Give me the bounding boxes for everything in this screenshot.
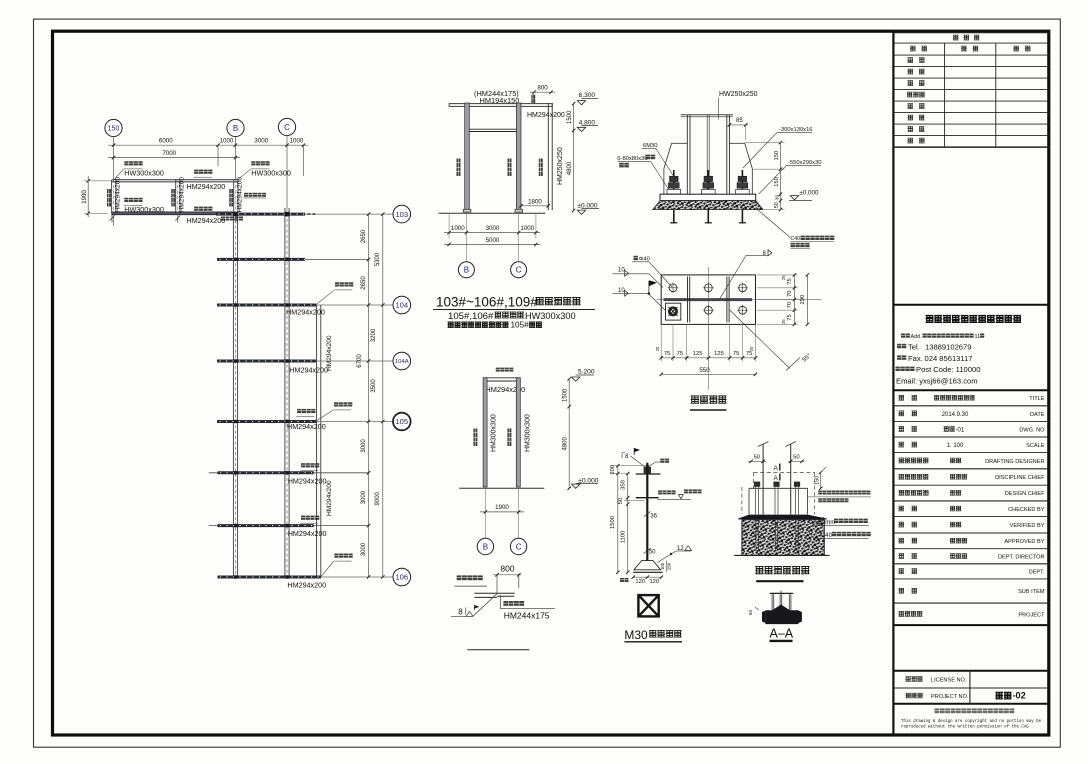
svg-text:11: 11 — [975, 334, 981, 340]
svg-text:Add.: Add. — [911, 334, 922, 340]
svg-text:±0.000: ±0.000 — [800, 190, 819, 197]
base plate plan web — [664, 298, 752, 301]
pier hatched — [742, 520, 824, 556]
svg-text:105#: 105# — [511, 320, 530, 329]
grid line C — [286, 136, 288, 208]
grid circle C elev2 — [510, 538, 526, 554]
svg-text:HW300x300: HW300x300 — [251, 168, 291, 177]
m30 left dims inner 350 50 1100 — [627, 474, 629, 573]
svg-text:HM294x200: HM294x200 — [115, 177, 122, 213]
svg-text:125: 125 — [693, 351, 703, 357]
svg-text:HM294x200: HM294x200 — [187, 182, 226, 191]
svg-text:HM294x200: HM294x200 — [527, 112, 565, 119]
svg-text:PROJECT: PROJECT — [1018, 612, 1045, 618]
svg-text:DATE: DATE — [1030, 412, 1045, 418]
svg-text:8: 8 — [458, 608, 463, 617]
svg-text:HM294x200: HM294x200 — [237, 177, 244, 213]
plan dim 550 — [661, 373, 755, 375]
elevation1 ground line — [439, 212, 546, 214]
base plate plan flange cuts — [687, 277, 689, 323]
svg-text:50: 50 — [748, 610, 753, 616]
svg-text:50: 50 — [774, 202, 780, 208]
svg-text:HM194x150: HM194x150 — [480, 96, 520, 105]
svg-text:HM294x200: HM294x200 — [178, 177, 185, 213]
svg-text:4800: 4800 — [563, 436, 569, 450]
column grid C (plan, vertical) — [284, 208, 286, 577]
svg-text:1000: 1000 — [520, 225, 534, 232]
column grid B (plan, vertical) — [232, 215, 234, 577]
label HM294x200 lower beam — [194, 207, 198, 211]
plan bottom dims 75 75 125 125 75 75 — [660, 324, 662, 361]
svg-text:TITLE: TITLE — [1029, 396, 1044, 402]
grid circle 104A — [393, 352, 411, 370]
gusset stiffener left — [663, 169, 665, 195]
anchor bolt with plate washer (bottom-left) — [666, 303, 681, 320]
dimension 7000 — [108, 157, 240, 159]
svg-text:70: 70 — [787, 291, 793, 297]
grid circle C — [278, 118, 295, 135]
encasement anchor bolts — [754, 482, 760, 487]
svg-text:2650: 2650 — [361, 276, 367, 290]
dimension chain rows outer — [382, 214, 384, 577]
grout layer under plate — [653, 201, 763, 210]
svg-text:550: 550 — [699, 367, 710, 374]
svg-text:1900: 1900 — [81, 190, 88, 204]
encasement column lines — [762, 444, 764, 514]
dimension chain rows inner — [368, 214, 370, 577]
svg-text:4800: 4800 — [567, 161, 573, 175]
svg-text:HM294x200: HM294x200 — [289, 365, 328, 374]
vertical HM294x200 label lines right — [316, 305, 318, 577]
svg-text:This drawing & design are copy: This drawing & design are copyright and … — [901, 719, 1042, 724]
svg-text:VERIFIED BY: VERIFIED BY — [1010, 523, 1045, 529]
label HW300x300 left — [124, 161, 128, 165]
svg-text:250: 250 — [667, 562, 672, 570]
m30 side dim 250 100 — [666, 560, 668, 572]
svg-text:1000: 1000 — [220, 138, 234, 145]
svg-text:C: C — [284, 123, 290, 132]
svg-text:HM294x200: HM294x200 — [187, 216, 226, 225]
svg-text:75: 75 — [787, 314, 793, 320]
grid circle B — [227, 119, 244, 136]
svg-text:103#~106#,109#: 103#~106#,109# — [436, 295, 538, 310]
title base plate — [691, 395, 699, 397]
plan dim 290 — [806, 275, 808, 325]
gusset stiffener right — [751, 169, 753, 195]
svg-text:Tel.: Tel. — [908, 342, 920, 351]
encasement title — [755, 566, 763, 568]
svg-text:36: 36 — [650, 514, 657, 520]
svg-text:85: 85 — [736, 118, 743, 124]
svg-text:024 85613117: 024 85613117 — [925, 354, 973, 363]
svg-text:75: 75 — [677, 351, 683, 357]
company address — [901, 334, 905, 338]
svg-text:2650: 2650 — [361, 229, 367, 243]
svg-text:DESIGN CHIEF: DESIGN CHIEF — [1005, 491, 1045, 497]
svg-text:75: 75 — [664, 351, 670, 357]
svg-text:A–A: A–A — [770, 627, 794, 641]
svg-text:100: 100 — [660, 562, 665, 570]
encasement note line1 — [818, 491, 822, 495]
svg-text:C: C — [516, 266, 522, 275]
svg-text:1: 100: 1: 100 — [947, 443, 964, 449]
grid line 150 — [113, 137, 115, 181]
svg-text:13889102679: 13889102679 — [925, 342, 971, 351]
bevel note 55deg — [730, 310, 790, 368]
elevation2 dim 1900 — [484, 488, 486, 538]
dimension row 6000 1000 3000 1000 — [108, 144, 308, 146]
pier anchor rods — [755, 520, 757, 551]
svg-text:6700: 6700 — [357, 354, 363, 368]
base plate plan centerlines — [707, 267, 709, 390]
svg-text:C40: C40 — [791, 236, 801, 242]
svg-text:B: B — [483, 542, 488, 551]
svg-text:9000: 9000 — [375, 491, 381, 505]
svg-text:103: 103 — [395, 210, 408, 219]
company postcode — [896, 367, 900, 371]
svg-text:HW300x300: HW300x300 — [124, 205, 164, 214]
svg-text:25: 25 — [781, 319, 786, 324]
svg-text:6.300: 6.300 — [579, 92, 596, 99]
elevation1 bottom dims — [448, 213, 450, 238]
info rows — [893, 389, 1049, 391]
label HM294x200 upper beam — [194, 170, 198, 174]
svg-text:HM244x175: HM244x175 — [504, 611, 550, 621]
svg-text:150: 150 — [108, 126, 120, 133]
svg-text:50: 50 — [754, 455, 760, 461]
svg-text:10: 10 — [618, 268, 625, 274]
grid circle 105 — [393, 413, 411, 431]
svg-text:DRAFTING DESIGNER: DRAFTING DESIGNER — [985, 459, 1044, 465]
spare underline — [467, 649, 529, 651]
bolt holes — [669, 284, 677, 292]
m30 bolt rod — [646, 463, 648, 561]
svg-text:150: 150 — [774, 177, 780, 187]
pier ground line — [734, 554, 829, 556]
base plate plan rect — [661, 275, 755, 325]
section A-A bolts — [771, 594, 773, 610]
svg-text:HW300x300: HW300x300 — [124, 168, 164, 177]
beam HW300x300 top chord — [112, 179, 237, 181]
svg-text:1800: 1800 — [528, 199, 542, 206]
elevation2 right column HM300x300 — [516, 378, 520, 487]
m30 nut — [644, 467, 651, 474]
svg-text:5.200: 5.200 — [578, 369, 595, 376]
encasement dashed outline — [754, 471, 815, 473]
beam row +3000b — [209, 525, 369, 527]
beam row 104A — [316, 360, 393, 362]
svg-text:75: 75 — [787, 278, 793, 284]
svg-text:75: 75 — [733, 351, 739, 357]
signature table — [893, 32, 1049, 34]
svg-text:200: 200 — [610, 465, 616, 475]
plan right dims 75 70 70 75 — [757, 274, 798, 276]
break symbol — [758, 442, 769, 447]
beam row 103 — [305, 213, 393, 215]
m30 top washer plate — [636, 473, 661, 475]
svg-text:-02: -02 — [1013, 691, 1026, 701]
splice existing beam lines — [474, 592, 514, 594]
svg-text:2014.9.30: 2014.9.30 — [942, 412, 969, 418]
svg-text:104: 104 — [395, 301, 408, 310]
plan column mid — [175, 180, 177, 215]
label hole dia 40 — [634, 256, 638, 260]
svg-text:HM294x200: HM294x200 — [287, 422, 326, 431]
beam row +3000a — [209, 472, 369, 474]
svg-text:B: B — [233, 124, 238, 133]
svg-text:800: 800 — [500, 564, 514, 574]
svg-text:105: 105 — [395, 417, 408, 426]
grid circle 104 — [393, 296, 411, 314]
grid circle 103 — [393, 205, 411, 223]
svg-text:3000: 3000 — [361, 542, 367, 556]
license row — [969, 671, 971, 704]
label HW300x300 lower-left — [124, 198, 128, 202]
dimension 1900 — [87, 176, 89, 217]
svg-text:SCALE: SCALE — [1026, 443, 1045, 449]
svg-text:DWG. NO: DWG. NO — [1019, 427, 1045, 433]
weld flag — [648, 281, 650, 293]
svg-text:1000: 1000 — [290, 138, 304, 145]
svg-text:1500: 1500 — [563, 388, 569, 402]
beam row 104 — [316, 304, 393, 306]
svg-text:3500: 3500 — [371, 379, 377, 393]
svg-text:5000: 5000 — [486, 237, 500, 244]
svg-text:800: 800 — [537, 85, 548, 92]
blank project box — [893, 624, 1049, 626]
svg-text:50mm: 50mm — [818, 519, 835, 526]
svg-text:25: 25 — [781, 275, 786, 280]
beam HM294x200 lower chord — [112, 212, 236, 215]
project no row — [893, 703, 1049, 705]
svg-text:Fax.: Fax. — [908, 354, 923, 363]
svg-text:LICENSE NO.: LICENSE NO. — [931, 678, 967, 684]
grid circle C elev1 — [511, 262, 527, 278]
svg-text:-01: -01 — [956, 427, 965, 433]
svg-text:3200: 3200 — [371, 328, 377, 342]
svg-text:8: 8 — [625, 453, 629, 460]
label HW300x300 right (grid B) — [251, 161, 255, 165]
svg-text:DEPT. DIRECTOR: DEPT. DIRECTOR — [998, 555, 1045, 561]
company name — [893, 304, 1049, 306]
svg-text:50: 50 — [649, 549, 656, 555]
company fax — [897, 355, 901, 359]
svg-text:HM294x200: HM294x200 — [288, 477, 327, 486]
svg-text:1100: 1100 — [620, 531, 626, 543]
company tel — [897, 344, 901, 348]
grout band dark — [738, 515, 827, 520]
elevation2 dim line 1500 4800 — [568, 379, 570, 488]
svg-text:DEPT.: DEPT. — [1029, 570, 1045, 576]
base plate -550x290x30 — [660, 194, 756, 200]
svg-text:HM300x300: HM300x300 — [524, 414, 531, 452]
elevation1 right column — [516, 103, 521, 209]
svg-text:1000: 1000 — [451, 225, 465, 232]
beam row 106 — [321, 576, 393, 578]
m30 anchor plate — [634, 560, 661, 569]
svg-text:1900: 1900 — [495, 504, 509, 511]
elevation1 dim 800 — [530, 91, 555, 93]
svg-text:106: 106 — [395, 573, 408, 582]
encasement top dims 50 50 — [748, 460, 766, 462]
svg-text:1500: 1500 — [610, 516, 616, 529]
svg-text:5300: 5300 — [375, 252, 381, 266]
svg-text:125: 125 — [714, 351, 724, 357]
weld marks under lower beam — [110, 216, 115, 221]
elevation1 back column HM294x200 — [547, 103, 549, 210]
grid circle 150 — [105, 119, 122, 136]
svg-text:20: 20 — [655, 346, 660, 351]
label C40 grout note — [757, 209, 790, 238]
base right dims 150 150 30 50 — [780, 142, 782, 209]
svg-text:PROJECT NO.: PROJECT NO. — [931, 694, 969, 700]
longitudinal beam HM294x200 right — [316, 305, 318, 577]
svg-text:APPROVED BY: APPROVED BY — [1004, 539, 1044, 545]
m30 mid plate — [636, 497, 659, 499]
elevation1 left column — [465, 103, 470, 209]
svg-text:HM300x300: HM300x300 — [490, 414, 497, 452]
svg-text:3000: 3000 — [486, 225, 500, 232]
label original column near C — [244, 193, 248, 197]
svg-text:HM294x200: HM294x200 — [286, 307, 325, 316]
svg-text:50: 50 — [793, 455, 799, 461]
svg-text:C40: C40 — [821, 532, 833, 539]
grid circle B elev2 — [477, 538, 493, 554]
svg-text:CHECKED BY: CHECKED BY — [1008, 507, 1045, 513]
beam row 105 — [316, 421, 393, 423]
elevation2 left column HM300x300 — [483, 378, 487, 487]
svg-text:1500: 1500 — [567, 110, 573, 124]
encasement solid box — [749, 487, 808, 489]
svg-text:HW300x300: HW300x300 — [525, 311, 576, 321]
svg-text:3000: 3000 — [254, 138, 268, 145]
svg-text:6000: 6000 — [159, 138, 173, 145]
label new beam HM244x175 — [499, 595, 501, 609]
elevation1 middle beam — [469, 128, 516, 130]
svg-text:B: B — [464, 266, 469, 275]
anchor bolts base elevation — [673, 170, 675, 224]
elevation2 ground line — [459, 487, 544, 489]
svg-text:3000: 3000 — [361, 439, 367, 453]
m30 bottom dim 120 120 — [633, 576, 661, 578]
svg-text:Post Code: 110000: Post Code: 110000 — [916, 365, 980, 374]
svg-text:6-80x80x30: 6-80x80x30 — [617, 156, 647, 162]
svg-text:70: 70 — [787, 302, 793, 308]
svg-text:50: 50 — [618, 498, 624, 504]
svg-text:HM294x200: HM294x200 — [287, 581, 326, 590]
svg-text:Email: yxsj66@163.com: Email: yxsj66@163.com — [896, 376, 978, 385]
grid circle 106 — [393, 568, 411, 586]
svg-text:HM294x200: HM294x200 — [326, 480, 333, 516]
svg-text:120: 120 — [649, 579, 659, 585]
svg-text:DISCIPLINE CHIEF: DISCIPLINE CHIEF — [995, 475, 1045, 481]
svg-text:C: C — [516, 542, 522, 551]
m30 left dims outer 200 1500 — [617, 466, 619, 573]
title block outline — [892, 31, 894, 735]
elevation1 column tiny labels — [457, 159, 461, 177]
svg-text:SUB ITEM: SUB ITEM — [1018, 589, 1045, 595]
elevation1 right dim 1500 4800 — [573, 104, 575, 211]
svg-text:20: 20 — [749, 346, 754, 351]
svg-text:HM250x250: HM250x250 — [557, 147, 564, 185]
svg-text:150: 150 — [774, 151, 780, 161]
encasement dim 150 — [820, 472, 822, 488]
svg-text:7000: 7000 — [162, 150, 176, 157]
base column HW250x250 — [686, 115, 688, 194]
m30 X symbol — [638, 595, 658, 616]
svg-text:10: 10 — [618, 288, 625, 294]
m30 pad label — [660, 459, 664, 463]
copyright note — [935, 708, 940, 713]
section A-A concrete — [765, 605, 798, 625]
svg-text:290: 290 — [800, 295, 806, 305]
svg-text:HW250x250: HW250x250 — [719, 91, 758, 98]
svg-text:reproduced without the written: reproduced without the written permissio… — [901, 724, 1029, 729]
svg-text:30: 30 — [775, 195, 780, 201]
grid circle B elev1 — [458, 262, 474, 278]
svg-text:120: 120 — [635, 579, 645, 585]
svg-text:104A: 104A — [395, 359, 409, 365]
svg-text:105#,106#: 105#,106# — [448, 311, 494, 322]
plan column at grid 150 — [111, 180, 113, 215]
svg-text:A: A — [774, 475, 779, 482]
label original beam — [457, 575, 462, 580]
svg-text:HM294x200: HM294x200 — [288, 529, 327, 538]
elevation2 top beam — [484, 377, 521, 379]
svg-text:A: A — [774, 465, 779, 472]
beam row intermediate 2650 — [305, 258, 368, 260]
svg-text:M30: M30 — [624, 628, 648, 642]
elevation1 top beam HM244x175 — [449, 104, 552, 107]
m30 level labels — [658, 490, 662, 494]
svg-text:150: 150 — [814, 476, 820, 485]
plan column at grid B — [233, 180, 235, 215]
grid line B — [235, 137, 237, 180]
svg-text:3000: 3000 — [361, 490, 367, 504]
svg-text:350: 350 — [620, 480, 626, 490]
